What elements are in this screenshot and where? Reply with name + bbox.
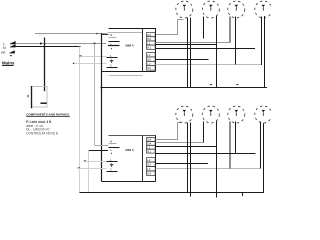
svg-text:N: N: [110, 33, 112, 37]
svg-text:L3: L3: [147, 167, 151, 171]
wire jog up to lamp E1 (gray): [156, 20, 184, 35]
module U2 earth glyph: [110, 163, 114, 166]
wire U2 out dark long: [156, 153, 256, 155]
svg-text:N: N: [3, 46, 6, 50]
wire U2 out dark short: [156, 163, 209, 165]
tick mark wire 3: [84, 160, 86, 161]
svg-text:COMPONENTS AND RATINGS: COMPONENTS AND RATINGS: [26, 113, 69, 117]
svg-text:DIM 4: DIM 4: [126, 148, 134, 152]
wire lamp E7 a: [229, 122, 231, 169]
control stub wire into U1 pin3 (faint): [81, 56, 107, 58]
wire U1 out dark to lamp E2 right: [156, 44, 218, 46]
bus corner up into lamp E8 wire: [263, 120, 265, 193]
wire U1 out dark short: [156, 59, 209, 61]
svg-text:N2: N2: [147, 163, 151, 167]
bottom bus wire y=195.5: [80, 192, 265, 194]
wire lamp E4 a: [261, 17, 263, 66]
module U1 outline: [102, 29, 157, 72]
mains arrow L: [10, 41, 16, 44]
svg-text:N2: N2: [147, 57, 151, 61]
wire N-top (gray) from x=35 to lamp E1 area: [35, 33, 107, 35]
control stub wire into U2 pin4 (faint): [79, 168, 107, 170]
junction dot bus/left vertical: [101, 87, 103, 89]
lamp E8: [255, 106, 272, 123]
long vertical wire / module left edges x=101.5: [101, 33, 103, 182]
wire PE drop (vertical to earth box): [44, 38, 46, 92]
wire lamp E2 a (ends floating): [203, 17, 205, 39]
wire lamp E6 b: [216, 121, 218, 193]
lamp E6: [202, 106, 219, 123]
wire U1 out gray to lamp E3 left: [156, 42, 231, 44]
wire lamp E1 b: [190, 18, 192, 88]
tick mark wire 1: [79, 55, 81, 56]
module U1 step edge top-left: [102, 34, 109, 36]
wire lamp E3 a: [229, 17, 231, 43]
module U1 terminal block group 1: [147, 33, 156, 50]
overshoot stub 1 below bus: [190, 193, 192, 197]
svg-text:PE: PE: [1, 51, 5, 55]
svg-text:DIM 4: DIM 4: [126, 43, 134, 47]
wire lamp E8 a: [260, 122, 262, 169]
svg-text:L2: L2: [147, 53, 151, 57]
wire lamp E2 b: [216, 16, 218, 88]
module U1 terminal block group 2: [147, 53, 156, 71]
svg-text:Mains: Mains: [2, 60, 15, 65]
lamp E4: [255, 1, 272, 18]
svg-text:N1: N1: [147, 46, 151, 50]
wire U1 out faint to lamp E4 left: [156, 64, 262, 66]
control stub wire into U2 pin3 (faint): [85, 161, 107, 163]
control stub wire into U1 pin4 (faint): [74, 63, 106, 65]
tick mark wire 2: [73, 63, 75, 64]
lamp E1: [176, 1, 193, 18]
wire lamp E6 a: [203, 122, 205, 143]
bus wire y=87: [102, 87, 268, 89]
wire U2 out faint to lamp E8 left: [156, 168, 261, 170]
lamp E5: [176, 106, 193, 123]
wire U2 out gray to lamp E6 left: [156, 142, 204, 144]
wire L (gray) from mains arrow to module U1 pin L: [16, 43, 107, 45]
svg-text:L3: L3: [147, 62, 151, 66]
lamp E2: [202, 1, 219, 18]
module U2 terminal channel: [142, 136, 144, 182]
wire lamp E1 a: [187, 18, 189, 88]
overshoot stub 2 below bus: [216, 193, 218, 198]
wire U2 out dark to lamp E6 right: [156, 146, 218, 148]
svg-text:N1: N1: [147, 149, 151, 153]
tick label above bus 1: [210, 84, 212, 85]
svg-text:N: N: [110, 139, 112, 143]
junction dot on wire L branch: [94, 43, 96, 45]
PE tick: [10, 55, 12, 56]
mains arrow PE: [10, 50, 15, 53]
svg-text:L2: L2: [147, 158, 151, 162]
wire U2 stub N (dark): [89, 150, 109, 152]
wire N branch down to bottom bus (faint): [79, 47, 81, 193]
wire L branch down to module U2 (gray): [94, 44, 96, 146]
tick label above bus 2: [236, 84, 238, 85]
junction dot on wire L: [40, 43, 42, 45]
module U1 terminal channel: [142, 29, 144, 72]
wire lamp E4 b: [264, 16, 266, 88]
wire lamp E5 a: [187, 123, 189, 193]
wire U1 out dark long: [156, 48, 256, 50]
lamp E3: [228, 1, 245, 18]
mains arrow N: [10, 44, 16, 47]
tick mark wire 4: [78, 167, 80, 168]
wire N riser to bottom bus (faint): [88, 151, 90, 193]
wire U2 out gray to lamp E5: [156, 123, 184, 140]
svg-text:230 V~: 230 V~: [38, 35, 46, 37]
lamp E7: [228, 106, 245, 123]
module U2 terminal block group 1: [147, 138, 156, 154]
wire lamp E3 b: [235, 17, 237, 65]
svg-text:CONTROL#4 NOTE 8: CONTROL#4 NOTE 8: [26, 131, 58, 135]
earth box symbol: [28, 86, 47, 108]
svg-text:N3: N3: [147, 66, 151, 70]
wire lamp E5 b: [190, 123, 192, 193]
wire inner gray segment through U1: [108, 32, 143, 34]
wire U2 stub L (gray): [95, 145, 109, 147]
module U1 sub line (gray): [109, 75, 143, 77]
wire lamp E7 b: [235, 122, 237, 154]
wire N (dark) from mains arrow, ends x=80: [16, 46, 81, 48]
junction tick on N-top wire: [96, 33, 98, 35]
small stub below bus: [242, 193, 244, 197]
module U1 earth glyph: [110, 59, 114, 62]
module U2 terminal block group 2: [147, 158, 156, 176]
svg-text:N3: N3: [147, 172, 151, 176]
module U2 outline: [109, 135, 157, 137]
